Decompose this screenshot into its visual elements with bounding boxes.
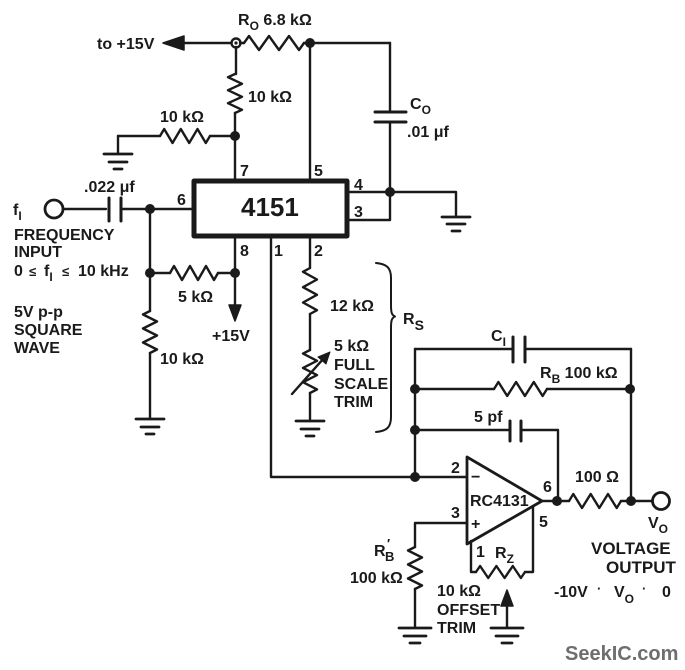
wire pin3 opamp [415, 523, 467, 547]
svg-text:−: − [471, 469, 480, 486]
node 5k left junction [145, 268, 155, 278]
svg-text:2: 2 [451, 460, 460, 477]
resistor 10k horizontal [160, 129, 210, 143]
svg-text:10 kΩ: 10 kΩ [437, 583, 481, 600]
svg-text:5 pf: 5 pf [474, 409, 503, 426]
svg-text:5 kΩ: 5 kΩ [178, 289, 213, 306]
svg-text:12 kΩ: 12 kΩ [330, 298, 374, 315]
capacitor 5pf [510, 421, 521, 441]
node RB left [410, 384, 420, 394]
wire +15V arrow shaft [234, 273, 236, 307]
op-amp RC4131 [467, 457, 542, 544]
svg-text:·: · [642, 581, 646, 596]
wire pin5 vertical [309, 43, 311, 179]
resistor RB' 100k [408, 547, 422, 589]
svg-text:7: 7 [240, 163, 249, 180]
svg-text:SCALE: SCALE [334, 376, 389, 393]
svg-text:8: 8 [240, 243, 249, 260]
terminal fI input circle [45, 200, 63, 218]
capacitor CO [375, 112, 406, 122]
wire pin1 long down and right [271, 236, 415, 477]
resistor RO 6.8k [244, 36, 304, 50]
wire RO to junction [240, 42, 390, 44]
svg-text:10 kΩ: 10 kΩ [160, 109, 204, 126]
node 5pf left [410, 425, 420, 435]
wire pin3 up to pin4 node [349, 192, 390, 220]
node junction pin7 [230, 131, 240, 141]
svg-text:INPUT: INPUT [14, 244, 62, 261]
svg-text:-10V: -10V [554, 584, 588, 601]
wire ground to 10k and to junction [118, 135, 235, 137]
resistor 12k [303, 268, 317, 314]
svg-text:+15V: +15V [212, 328, 250, 345]
wire pin4 node to ground [390, 192, 456, 216]
wire 5pf left [415, 429, 510, 431]
svg-text:B: B [385, 549, 394, 564]
wire pin2 to 12k [309, 236, 311, 268]
svg-text:5V p-p: 5V p-p [14, 304, 63, 321]
IC 4151 box [194, 181, 347, 236]
svg-text:3: 3 [354, 204, 363, 221]
svg-text:FULL: FULL [334, 357, 375, 374]
svg-text:OFFSET: OFFSET [437, 602, 500, 619]
ground G2 [442, 217, 470, 231]
brace RS [376, 263, 395, 432]
ground G1 [104, 154, 132, 169]
terminal VO output circle [653, 493, 670, 510]
svg-text:VOLTAGE: VOLTAGE [591, 539, 671, 558]
wire CO to pin4 node [389, 122, 391, 192]
wire RB' to ground [414, 589, 416, 627]
node right bus bottom [626, 496, 636, 506]
resistor 10k upper vertical [228, 74, 242, 113]
wire top rail from arrow to supply node [180, 42, 231, 44]
svg-text:′: ′ [387, 536, 390, 551]
resistor 10k input vertical [143, 311, 157, 353]
ground G3 [136, 419, 164, 434]
ground G5 [399, 628, 431, 643]
svg-text:4151: 4151 [241, 192, 299, 222]
wire input to cap [63, 208, 106, 210]
wire 10k to junction [234, 113, 236, 136]
resistor 100 ohm [569, 494, 621, 508]
svg-text:OUTPUT: OUTPUT [606, 558, 677, 577]
svg-text:6: 6 [177, 192, 186, 209]
wire pin4 [349, 191, 390, 193]
wire 100ohm to terminal [621, 500, 653, 502]
node output junction [552, 496, 562, 506]
svg-text:3: 3 [451, 505, 460, 522]
ground G6 [491, 628, 523, 643]
node input junction [145, 204, 155, 214]
wire feedback bus left [414, 349, 416, 477]
svg-text:TRIM: TRIM [334, 394, 373, 411]
wire RB leads [415, 388, 630, 390]
wire pin1 opamp [471, 541, 476, 572]
wire 5k leads [150, 272, 235, 274]
svg-text:100 Ω: 100 Ω [575, 469, 619, 486]
capacitor .022uf [109, 198, 121, 221]
svg-text:+: + [471, 516, 480, 533]
trim arrow diagonal [292, 358, 324, 394]
svg-text:5: 5 [314, 163, 323, 180]
wire supply node down to 10k [235, 47, 237, 74]
svg-text:FREQUENCY: FREQUENCY [14, 227, 115, 244]
svg-text:SQUARE: SQUARE [14, 322, 83, 339]
wire to opamp pin2 [415, 476, 467, 478]
node pin2 opamp junction [410, 472, 420, 482]
node RB right [625, 384, 635, 394]
svg-text:5: 5 [539, 514, 548, 531]
wire down to CO [389, 43, 391, 112]
wire 10k to ground [149, 353, 151, 418]
svg-text:1: 1 [274, 243, 283, 260]
svg-text:TRIM: TRIM [437, 620, 476, 637]
wire right bus [630, 349, 632, 501]
wire 5pf right and down [521, 430, 558, 501]
wire junction down [149, 209, 151, 273]
arrow RZ wiper up [506, 604, 508, 627]
capacitor CI [513, 337, 525, 362]
svg-text:1: 1 [476, 544, 485, 561]
node pin8 junction [230, 268, 240, 278]
svg-text:to +15V: to +15V [97, 36, 155, 53]
wire to 10k input resistor [149, 273, 151, 311]
resistor RB 100k [494, 382, 547, 396]
resistor 5k horizontal [170, 266, 218, 280]
node supply open circle [232, 39, 241, 48]
svg-text:0: 0 [662, 584, 671, 601]
node pin4 junction [385, 187, 395, 197]
svg-text:2: 2 [314, 243, 323, 260]
svg-text:10 kΩ: 10 kΩ [248, 89, 292, 106]
svg-text:5 kΩ: 5 kΩ [334, 338, 369, 355]
wire junction to pin7 [234, 136, 236, 179]
svg-text:WAVE: WAVE [14, 340, 60, 357]
wire trim to ground [309, 393, 311, 420]
svg-text:.022 μf: .022 μf [84, 179, 135, 196]
resistor RZ [476, 566, 525, 578]
resistor 5k trim [303, 350, 317, 393]
svg-text:·: · [597, 581, 601, 596]
svg-text:RC4131: RC4131 [470, 493, 529, 510]
svg-text:.01 μf: .01 μf [407, 124, 449, 141]
wire CI top [415, 348, 631, 350]
wire cap to pin6 [121, 208, 194, 210]
wire ground stub [117, 136, 119, 153]
node top junction [305, 38, 315, 48]
svg-text:6: 6 [543, 479, 552, 496]
wire 12k to trim [309, 314, 311, 350]
svg-text:100 kΩ: 100 kΩ [350, 570, 403, 587]
wire pin5 opamp [525, 507, 533, 572]
wire pin8 [234, 236, 236, 273]
arrow to +15V [163, 36, 184, 50]
wire opamp output [542, 500, 569, 502]
svg-text:SeekIC.com: SeekIC.com [565, 643, 678, 665]
arrow +15V down [229, 305, 241, 321]
ground G4 [296, 421, 324, 436]
svg-text:10 kΩ: 10 kΩ [160, 351, 204, 368]
